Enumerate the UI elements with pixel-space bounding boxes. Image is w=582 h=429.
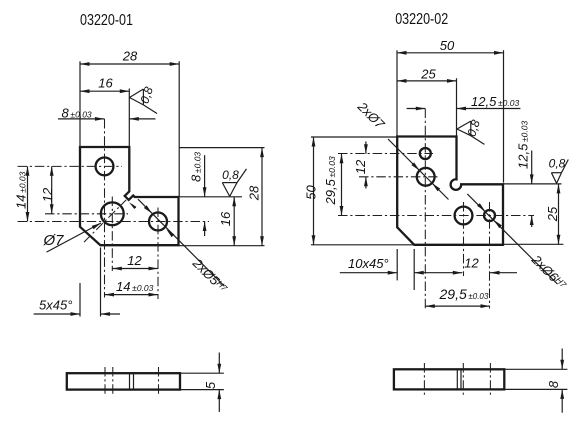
hole H1 Ø5H7 top-left xyxy=(96,158,114,176)
dimension 14 ±0.03 bottom xyxy=(105,279,159,297)
title 03220-01 xyxy=(80,12,133,29)
svg-text:03220-01: 03220-01 xyxy=(80,12,133,29)
centerline H3 vertical xyxy=(157,208,159,300)
section part2 centerline K12 xyxy=(423,363,425,396)
section view part2 plate xyxy=(394,369,504,389)
section part2 centerline K4 xyxy=(489,363,491,396)
dimension 16 right xyxy=(179,197,243,246)
dimension 29,5 ±0.03 left xyxy=(323,154,343,216)
svg-text:0,8: 0,8 xyxy=(222,168,239,182)
svg-text:16: 16 xyxy=(218,211,233,226)
centerline H2 vertical xyxy=(111,197,113,272)
svg-text:8: 8 xyxy=(546,380,561,388)
dimension 8 ±0.03 right xyxy=(189,152,207,236)
title 03220-02 xyxy=(395,11,448,28)
dimension 28 top width xyxy=(80,48,179,196)
hole K4 Ø6H7 bottom-right xyxy=(484,210,495,221)
centerline H1 vertical xyxy=(104,119,106,298)
section part1 step edge lines xyxy=(130,373,134,389)
dimension 50 top width xyxy=(397,38,504,183)
svg-text:29,5 ±0.03: 29,5 ±0.03 xyxy=(439,286,489,302)
centerline K3 vertical xyxy=(463,202,465,276)
leader Ø7 hole H2 xyxy=(43,223,102,252)
svg-text:2xØ7: 2xØ7 xyxy=(354,98,388,132)
dimension 12 left part2 xyxy=(353,142,368,189)
section part2 step edge lines xyxy=(457,369,461,389)
svg-text:12: 12 xyxy=(127,253,142,268)
svg-text:12: 12 xyxy=(353,159,368,174)
svg-text:28: 28 xyxy=(122,48,138,63)
dimension 14 ±0.03 left xyxy=(14,166,30,221)
svg-text:2xØ6H7: 2xØ6H7 xyxy=(528,251,569,292)
centerline K3 K4 common horizontal xyxy=(338,215,534,217)
section view part1 plate xyxy=(67,373,180,389)
dimension 25 top xyxy=(397,66,457,136)
dimension 16 top xyxy=(80,76,129,192)
centerline K1 horizontal xyxy=(338,153,433,155)
section part1 centerline H3 xyxy=(158,367,160,396)
dimension 50 left height xyxy=(303,137,414,245)
svg-text:14 ±0.03: 14 ±0.03 xyxy=(116,279,154,294)
surface finish 0,8 top part2 xyxy=(457,118,484,145)
centerline H1 horizontal xyxy=(18,165,123,167)
centerline H3 horizontal xyxy=(18,221,210,223)
svg-text:03220-02: 03220-02 xyxy=(395,11,448,28)
hole K1 Ø6H7 top xyxy=(420,148,431,159)
dimension 12 left xyxy=(40,166,55,214)
dimension 28 right height xyxy=(179,148,265,246)
svg-text:12: 12 xyxy=(40,187,55,202)
dimension 12 bottom part2 xyxy=(464,256,517,275)
svg-text:12: 12 xyxy=(464,256,479,271)
surface finish 0,8 right part1 xyxy=(222,168,246,196)
svg-text:29,5 ±0.03: 29,5 ±0.03 xyxy=(323,156,338,205)
hole K2 Ø7 upper-middle xyxy=(417,168,435,186)
svg-text:12,5 ±0.03: 12,5 ±0.03 xyxy=(471,94,519,109)
svg-text:8 ±0.03: 8 ±0.03 xyxy=(189,152,204,182)
svg-text:0,8: 0,8 xyxy=(464,118,483,139)
section part1 centerline H2 xyxy=(112,367,114,396)
svg-text:8 ±0.03: 8 ±0.03 xyxy=(62,106,92,121)
svg-text:12,5 ±0.03: 12,5 ±0.03 xyxy=(516,121,531,169)
leader 2xØ5H7 diagonal xyxy=(129,199,230,296)
svg-text:5: 5 xyxy=(203,381,218,389)
dimension 12,5 ±0.03 right part2 xyxy=(516,121,534,227)
diagonal axis through H2 at 45deg xyxy=(84,200,126,242)
dimension 5x45 chamfer part1 xyxy=(34,248,120,317)
hole K3 Ø7 bottom-middle xyxy=(455,207,473,225)
part 03220-02 body outline with chamfer and round relief xyxy=(397,137,503,245)
svg-text:50: 50 xyxy=(440,38,455,53)
dimension 29,5 ±0.03 bottom part2 xyxy=(425,286,490,308)
svg-text:Ø7: Ø7 xyxy=(43,232,65,249)
section part1 centerline H1 xyxy=(104,367,106,396)
svg-text:0,8: 0,8 xyxy=(137,85,156,106)
dimension 8 ±0.03 top xyxy=(58,106,156,121)
surface finish 0,8 right part2 xyxy=(549,157,569,184)
hole H2 Ø7 middle xyxy=(101,202,124,225)
svg-text:2xØ5H7: 2xØ5H7 xyxy=(189,255,230,296)
centerline H2 horizontal xyxy=(45,213,128,215)
svg-text:14 ±0.03: 14 ±0.03 xyxy=(14,171,29,209)
svg-text:28: 28 xyxy=(246,185,261,201)
centerline K1 K2 common vertical xyxy=(424,109,426,309)
surface finish 0,8 top part1 xyxy=(130,85,158,114)
dimension 5 thickness part1 xyxy=(180,353,224,412)
dimension 12,5 ±0.03 top xyxy=(407,94,521,110)
svg-text:16: 16 xyxy=(98,76,113,91)
svg-text:5x45°: 5x45° xyxy=(39,298,72,313)
centerline K4 vertical xyxy=(489,202,491,309)
svg-text:50: 50 xyxy=(303,185,318,200)
section part2 centerline K3 xyxy=(462,363,464,396)
part 03220-01 body outline with chamfer and V-notch xyxy=(80,147,179,245)
svg-text:10x45°: 10x45° xyxy=(348,256,389,271)
hole H3 Ø5H7 right xyxy=(149,213,167,231)
svg-text:0,8: 0,8 xyxy=(549,157,566,171)
dimension 10x45 chamfer part2 xyxy=(340,249,463,290)
svg-text:25: 25 xyxy=(545,206,560,222)
leader 2xØ6H7 diagonal xyxy=(467,194,569,293)
centerline K2 horizontal xyxy=(359,176,438,178)
dimension 25 right part2 xyxy=(503,184,563,244)
svg-text:25: 25 xyxy=(420,66,436,81)
dimension 8 thickness part2 xyxy=(504,349,567,413)
dimension 12 bottom xyxy=(112,253,158,270)
leader 2xØ7 diagonal xyxy=(354,98,448,199)
